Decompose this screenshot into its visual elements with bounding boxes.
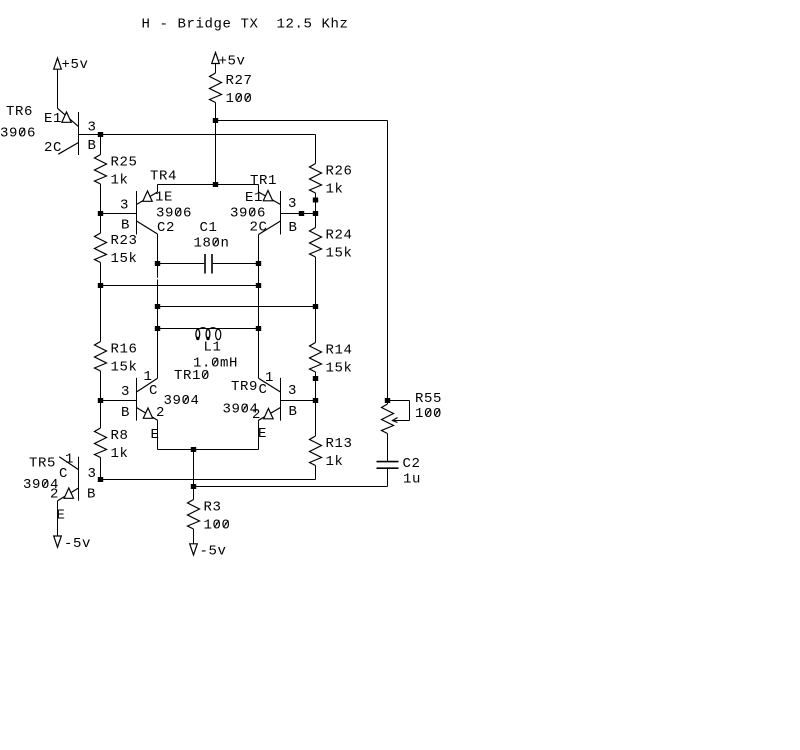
svg-text:3: 3: [120, 198, 129, 214]
power -5v (R3): [190, 544, 198, 555]
svg-text:100: 100: [226, 91, 253, 107]
svg-text:R14: R14: [326, 343, 353, 359]
svg-text:3904: 3904: [164, 393, 200, 409]
wire C1 left: [158, 263, 205, 265]
resistor R25 1k: [95, 155, 138, 189]
inductor L1 1.0mH: [158, 328, 259, 372]
svg-text:L1: L1: [204, 340, 222, 356]
svg-text:R27: R27: [226, 73, 253, 89]
svg-text:100: 100: [415, 406, 442, 422]
svg-text:R23: R23: [111, 233, 138, 249]
svg-text:E1: E1: [44, 111, 62, 127]
junction R16-R8 / TR10 base: [98, 398, 103, 403]
svg-text:E: E: [151, 427, 160, 443]
svg-text:R24: R24: [326, 228, 353, 244]
svg-text:B: B: [121, 405, 130, 421]
wire TR5 emitter down: [57, 501, 59, 536]
resistor R14 15k: [310, 343, 353, 377]
junction TR1 base wire: [299, 211, 304, 216]
svg-text:R25: R25: [111, 155, 138, 171]
junction L1 left: [155, 326, 160, 331]
svg-text:-5v: -5v: [200, 544, 227, 560]
wire +5v to R27: [215, 64, 217, 74]
junction R26 bottom: [313, 198, 318, 203]
svg-text:R13: R13: [326, 436, 353, 452]
wire top emitter rail TR4-TR1: [158, 184, 259, 186]
svg-text:1k: 1k: [326, 454, 344, 470]
svg-text:2: 2: [252, 407, 261, 423]
junction R14-R13 / TR9 base: [313, 398, 318, 403]
junction R23-R16 / cross wire: [98, 283, 103, 288]
svg-text:+5v: +5v: [219, 54, 246, 70]
svg-text:E: E: [258, 426, 267, 442]
svg-text:15k: 15k: [111, 360, 138, 376]
wire R16 bottom to R8: [100, 371, 102, 428]
transistor TR10 (NPN 2N3904, lower left of bridge): [121, 368, 210, 443]
svg-text:1k: 1k: [111, 173, 129, 189]
resistor R3 100: [188, 500, 231, 534]
svg-text:E1: E1: [245, 190, 263, 206]
resistor R13 1k: [310, 436, 353, 470]
svg-text:3: 3: [88, 466, 97, 482]
svg-text:1u: 1u: [403, 472, 421, 488]
wire right rail down to R55: [387, 121, 389, 401]
wire left chain to TR1 collector: [101, 285, 259, 287]
svg-text:B: B: [289, 404, 298, 420]
wire R26 bottom lead: [315, 193, 317, 228]
svg-text:C1: C1: [200, 220, 218, 236]
svg-text:-5v: -5v: [64, 536, 91, 552]
wire R55 top lead: [387, 401, 389, 405]
wire R3 bottom lead: [193, 529, 195, 544]
junction R27 / right rail: [213, 118, 218, 123]
wire TR4 base: [101, 213, 137, 215]
slashed-zero strokes (font detail): [20, 94, 440, 527]
svg-text:3: 3: [121, 384, 130, 400]
svg-text:100: 100: [204, 518, 231, 534]
wire TR4 collector line to right chain: [158, 306, 316, 308]
wire TR4 emitter corner: [157, 185, 159, 193]
svg-text:B: B: [121, 218, 130, 234]
svg-text:TR5: TR5: [29, 456, 56, 472]
svg-text:2C: 2C: [44, 140, 62, 156]
junction TR6 base / R25 chain: [98, 132, 103, 137]
junction emitter rail / R3 line: [191, 447, 196, 452]
resistor R23 15k: [95, 233, 138, 267]
svg-text:R8: R8: [111, 428, 129, 444]
transistor TR9 (NPN 2N3904, lower right of bridge): [223, 370, 298, 442]
wire TR5 base node to R13: [101, 479, 316, 481]
svg-text:1k: 1k: [111, 446, 129, 462]
svg-text:TR1: TR1: [250, 173, 277, 189]
svg-text:180n: 180n: [194, 236, 230, 252]
power -5v (TR5 emitter): [54, 536, 62, 547]
wire R24 bottom to R14: [315, 257, 317, 343]
resistor R55 100 (trimmer): [382, 391, 443, 434]
transistor TR6 (PNP 2N3906, left top): [0, 104, 97, 156]
wire TR10 emitter down: [157, 420, 159, 449]
svg-text:15k: 15k: [326, 246, 353, 262]
resistor R16 15k: [95, 342, 138, 376]
resistor R27 100: [210, 73, 253, 107]
wire R27 bottom lead: [215, 103, 217, 121]
svg-text:C: C: [259, 382, 268, 398]
wire bottom emitter rail: [158, 449, 259, 451]
svg-text:B: B: [289, 220, 298, 236]
svg-text:B: B: [88, 138, 97, 154]
svg-text:R3: R3: [204, 500, 222, 516]
capacitor C1 180n: [194, 220, 230, 274]
wire R13 bottom lead: [315, 466, 317, 480]
svg-text:C: C: [149, 383, 158, 399]
wire R14 bottom to R13: [315, 372, 317, 436]
wire R55 bottom to C2: [387, 434, 389, 462]
svg-text:15k: 15k: [326, 361, 353, 377]
junction top rail center: [213, 182, 218, 187]
wire TR9 base: [281, 400, 316, 402]
wire R8 bottom to TR5 base node: [100, 458, 102, 480]
wire emitter node down (R3 line): [193, 450, 195, 500]
svg-text:R16: R16: [111, 342, 138, 358]
wire +5v to TR6 emitter: [57, 69, 59, 108]
transistor TR4 (PNP 2N3906, upper left of bridge): [120, 169, 192, 237]
wire R25 bottom to R23: [100, 184, 102, 233]
svg-text:3: 3: [288, 196, 297, 212]
wire TR6 base to R26 top rail: [79, 134, 316, 136]
wire R27 node down to top rail: [215, 121, 217, 185]
wire R25 top lead: [100, 135, 102, 155]
junction wire306 / left collector line: [155, 304, 160, 309]
svg-text:B: B: [87, 487, 96, 503]
svg-text:3: 3: [88, 120, 97, 136]
junction C1 left / TR4 collector: [155, 261, 160, 266]
svg-text:3: 3: [288, 383, 297, 399]
wire TR10 base: [101, 400, 137, 402]
svg-text:15k: 15k: [111, 251, 138, 267]
svg-text:2: 2: [156, 405, 165, 421]
svg-text:TR4: TR4: [150, 169, 177, 185]
svg-text:TR9: TR9: [231, 379, 258, 395]
wire right collector line (TR1 to TR9): [258, 235, 260, 379]
wire C2 return: [194, 486, 388, 488]
resistor R24 15k: [310, 228, 353, 262]
svg-text:R26: R26: [326, 164, 353, 180]
svg-text:C2: C2: [157, 220, 175, 236]
wire TR1 base: [281, 213, 316, 215]
svg-text:C2: C2: [403, 456, 421, 472]
svg-text:TR6: TR6: [6, 104, 33, 120]
junction R24-R14 / cross wire: [313, 304, 318, 309]
resistor R8 1k: [95, 428, 129, 462]
transistor TR5 (NPN 2N3904, left bottom): [23, 452, 97, 524]
junction L1 right: [256, 326, 261, 331]
transistor TR1 (PNP 2N3906, upper right of bridge): [230, 173, 298, 236]
junction right rail / R55 top: [385, 398, 390, 403]
resistor R26 1k: [310, 164, 353, 198]
wire TR1 emitter corner: [258, 185, 260, 193]
svg-text:+5v: +5v: [62, 57, 89, 73]
wire left collector line (TR4 to TR10): [157, 234, 159, 278]
svg-text:2C: 2C: [250, 220, 268, 236]
svg-text:1k: 1k: [326, 182, 344, 198]
wire C2 bottom lead: [387, 468, 389, 487]
svg-text:1E: 1E: [155, 190, 173, 206]
junction TR4 base / left chain: [98, 211, 103, 216]
junction R3 line / C2 return wire: [191, 484, 196, 489]
svg-text:3906: 3906: [0, 126, 36, 142]
junction TR5 base / R8: [98, 477, 103, 482]
svg-text:H - Bridge TX 12.5 Khz: H - Bridge TX 12.5 Khz: [142, 17, 349, 33]
wire R26 feed down: [315, 135, 317, 164]
power +5v (left, TR6 emitter supply): [54, 58, 62, 69]
capacitor C2 1u: [377, 456, 422, 488]
svg-text:2: 2: [50, 487, 59, 503]
junction wire285 / right collector line: [256, 283, 261, 288]
svg-text:R55: R55: [415, 391, 442, 407]
junction TR1 base / right chain: [313, 211, 318, 216]
junction C1 right / TR1 collector: [256, 261, 261, 266]
wire TR9 emitter down: [258, 420, 260, 449]
svg-text:C: C: [59, 466, 68, 482]
wire R27 node to right rail corner: [216, 120, 388, 122]
wire C1 right: [213, 263, 259, 265]
wire R23 bottom to R16: [100, 263, 102, 342]
power +5v (center, R27 supply): [212, 53, 220, 64]
junction R14 bottom: [313, 376, 318, 381]
